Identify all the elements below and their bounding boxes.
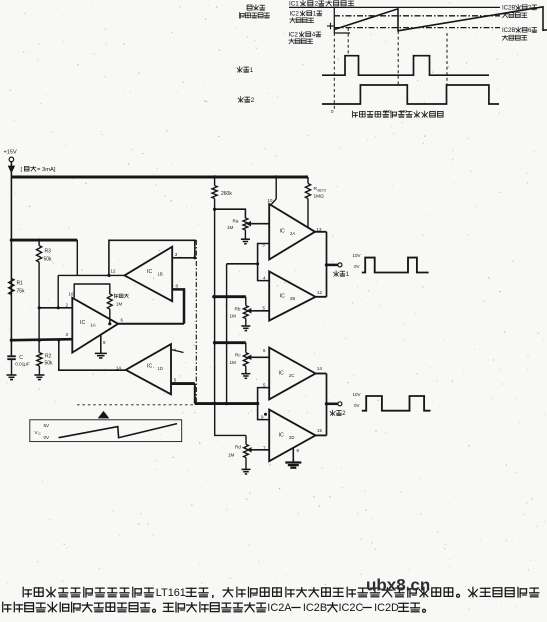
wire R2fb bottom [109, 309, 111, 324]
svg-text:2: 2 [315, 1, 319, 8]
caption typical waveforms [352, 111, 443, 117]
ground under Ra [241, 230, 250, 244]
waveform box [30, 420, 182, 442]
comparator IC2B [269, 271, 315, 320]
IC1 package outline bottom [77, 404, 194, 406]
wire IC1A output [118, 323, 184, 325]
label IC2 pin1 reference level [290, 11, 322, 23]
wire Rd feed [215, 404, 246, 445]
svg-text:2: 2 [66, 303, 69, 308]
pin 12 IC2B [317, 290, 322, 295]
junction bus-260k [213, 402, 216, 405]
svg-text:R1: R1 [17, 281, 24, 287]
terminal clock2 [338, 402, 342, 406]
svg-text:SET2: SET2 [317, 189, 326, 193]
svg-text:12: 12 [111, 269, 116, 274]
pin 15 IC2D [317, 428, 322, 433]
svg-text:Rb: Rb [235, 307, 241, 312]
svg-text:9: 9 [261, 415, 264, 420]
wire IC1B top loop [109, 240, 195, 275]
wire feedback down [57, 275, 59, 307]
dashed grid vertical 3 [397, 31, 399, 86]
comparator IC2A [269, 204, 315, 260]
pin 5 IC2C inv [263, 382, 266, 387]
terminal +15V [9, 157, 14, 166]
sawtooth chart axis [334, 7, 350, 33]
svg-text:14: 14 [317, 366, 322, 371]
terminal clock1 [338, 263, 342, 267]
op-amp IC1A [72, 298, 118, 353]
wire left vertical [10, 177, 12, 356]
svg-text:IC2C: IC2C [339, 602, 364, 614]
label 10V clock2 [353, 392, 361, 397]
dashed grid vertical 4 [446, 33, 448, 86]
svg-text:5: 5 [174, 378, 177, 383]
svg-text:C: C [19, 355, 23, 361]
wire pin16 stub [74, 284, 110, 298]
wiper Rb [248, 309, 270, 313]
label Vc [35, 430, 42, 436]
wire IC2B out [316, 296, 327, 298]
svg-text:2A: 2A [290, 231, 295, 236]
wire Rb feed [214, 297, 246, 306]
junction Rc tee [213, 341, 216, 344]
wire IC2A out [315, 231, 327, 233]
svg-text:9: 9 [103, 340, 106, 345]
junction feedback-IC1B [107, 274, 110, 277]
wire IC2C out [316, 373, 327, 375]
wire IC1D output [171, 384, 195, 404]
wire sawtooth to bracket A [227, 263, 258, 265]
sawtooth waveform [334, 7, 547, 31]
junction clock1 [325, 263, 328, 266]
wire to IC1D input [59, 340, 126, 370]
label IC2B pin6 reference level [502, 27, 537, 40]
time axis labels [331, 109, 408, 114]
wire RSET2 down [307, 199, 309, 228]
svg-text:2: 2 [342, 410, 346, 417]
wire IC1B out bottom [172, 289, 184, 323]
wire R3 bottom [38, 262, 40, 353]
label 0V clock2 [354, 403, 360, 408]
svg-text:2B: 2B [290, 296, 295, 301]
svg-text:0: 0 [331, 109, 334, 114]
svg-text:8: 8 [297, 448, 300, 453]
wire sawtooth bus [195, 402, 258, 405]
leader tick [327, 23, 334, 29]
body text line 2 [3, 602, 426, 614]
label IC2 pin4 reference level [289, 32, 321, 44]
reference line 3 [334, 27, 500, 29]
label 5V [44, 423, 51, 428]
IC1 package outline right [195, 240, 197, 405]
pin 4 IC1D [171, 348, 184, 353]
pin 16 IC1A [69, 292, 74, 297]
svg-text:5: 5 [263, 305, 266, 310]
pin 9 IC1A [103, 340, 106, 345]
svg-text:6: 6 [263, 348, 266, 353]
svg-text:IC: IC [279, 433, 284, 439]
svg-text:Rc: Rc [235, 353, 241, 358]
svg-text:3: 3 [66, 332, 69, 337]
svg-text:1D: 1D [158, 366, 163, 371]
junction clock2 [325, 402, 328, 405]
resistor R2fb threshold [107, 294, 128, 309]
pin 8 IC1B [176, 284, 179, 289]
svg-text:IC1: IC1 [289, 1, 299, 8]
svg-text:IC: IC [147, 364, 152, 370]
pin 3 IC1A [66, 332, 69, 337]
waveform clock2 [362, 396, 431, 411]
svg-text:1M: 1M [230, 360, 237, 365]
wire bracket A [258, 244, 270, 281]
wire bias spur [11, 239, 77, 242]
op-amp IC1D [126, 344, 171, 394]
svg-text:2: 2 [251, 97, 255, 104]
svg-text:1M: 1M [228, 453, 235, 458]
svg-text:IC: IC [280, 229, 285, 235]
ground under C [7, 375, 17, 380]
arrow to waveform box [99, 412, 108, 418]
label 0V box [44, 435, 51, 440]
junction bracket C pin9 [261, 413, 267, 420]
resistor R3 [37, 240, 53, 262]
svg-text:14: 14 [116, 366, 121, 371]
svg-text:4: 4 [263, 275, 266, 280]
junction R3 top [38, 239, 41, 242]
pin 7 IC2D [263, 445, 266, 450]
label supply current [21, 166, 56, 173]
node +15V label [4, 150, 17, 156]
junction left-bias [10, 238, 13, 241]
watermark ubx8.cn [366, 576, 430, 595]
svg-text:1: 1 [346, 271, 350, 278]
ground under Rb [241, 319, 250, 331]
resistor RSET2 [305, 177, 326, 200]
svg-text:260k: 260k [221, 191, 232, 197]
label clock2 waveform [238, 97, 255, 104]
wiper Ra [247, 222, 269, 226]
wire IC1A gnd stub [100, 335, 102, 354]
wire Rc feed [215, 343, 246, 353]
potentiometer Rb [230, 306, 249, 319]
wire IC1A inv input [11, 339, 72, 340]
svg-text:0V: 0V [44, 435, 51, 440]
svg-text:6: 6 [121, 318, 124, 323]
wiper Rc [248, 356, 270, 360]
svg-text:IC2B: IC2B [502, 28, 515, 34]
svg-text:IC2B: IC2B [303, 602, 327, 614]
label clock1 [334, 271, 350, 278]
junction IC1B out [193, 256, 196, 259]
ground under Rc [241, 366, 250, 378]
svg-text:Ra: Ra [233, 219, 239, 224]
label capacitor voltage [239, 5, 269, 18]
pin 10 IC2A [268, 198, 273, 203]
svg-text:8: 8 [176, 284, 179, 289]
wire feedback horizontal [58, 274, 124, 276]
junction IC1D feed [57, 338, 60, 341]
svg-text:IC2A: IC2A [267, 602, 292, 614]
label clock1 waveform [237, 67, 254, 74]
wire clock1 node [326, 232, 328, 297]
svg-text:[: [ [21, 167, 23, 173]
pin 4 IC2B [263, 275, 266, 280]
junction pin2 tee [38, 306, 41, 309]
resistor R2 [37, 353, 53, 375]
svg-text:1M: 1M [230, 314, 237, 319]
junction rail-260k [213, 175, 216, 178]
wire IC2A V+ [271, 177, 276, 204]
svg-text:50k: 50k [45, 361, 54, 367]
svg-text:1: 1 [313, 12, 317, 18]
pin 5 IC2B [263, 305, 266, 310]
body text line 1 [23, 587, 539, 599]
svg-text:1: 1 [250, 67, 254, 74]
svg-text:1A: 1A [91, 323, 96, 328]
wire IC1A noninv input [39, 307, 72, 309]
svg-text:+15V: +15V [4, 150, 17, 156]
pin 3 IC1B [175, 252, 178, 257]
svg-text:1MΩ: 1MΩ [314, 194, 325, 200]
resistor R1 [9, 240, 25, 294]
junction bus-bracket [256, 402, 259, 405]
pin 14 IC2C [317, 366, 322, 371]
junction rail-IC2A [275, 175, 278, 178]
junction bracket A [256, 262, 259, 265]
junction feedback join [57, 306, 60, 309]
wire IC2D out [316, 434, 327, 436]
IC1 package outline top [170, 239, 196, 241]
svg-text:IC2: IC2 [290, 12, 300, 18]
pin 6 IC1A [121, 318, 124, 323]
svg-text:IC: IC [80, 320, 85, 326]
svg-text:0V: 0V [354, 403, 360, 408]
svg-text:5: 5 [263, 382, 266, 387]
junction Rb tee [212, 295, 215, 298]
wiper Rd [248, 448, 269, 452]
svg-text:16: 16 [69, 292, 74, 297]
svg-text:0V: 0V [354, 264, 360, 269]
junction bus-riser [225, 402, 228, 405]
ground under IC1A [95, 353, 107, 358]
svg-text:2D: 2D [289, 435, 294, 440]
svg-text:R3: R3 [45, 249, 52, 255]
pin 2 IC1A [66, 303, 69, 308]
pin 14 IC1D [116, 366, 121, 371]
pin 13 IC2A [317, 227, 322, 232]
svg-text:IC2: IC2 [289, 33, 299, 39]
svg-text:4: 4 [312, 33, 316, 39]
svg-text:IC: IC [279, 371, 284, 377]
svg-text:75k: 75k [17, 289, 26, 295]
svg-text:IC: IC [280, 294, 285, 300]
svg-text:50k: 50k [44, 257, 53, 263]
wire clock1 out [327, 264, 338, 267]
svg-text:LT161: LT161 [156, 587, 186, 599]
svg-text:1B: 1B [158, 272, 163, 277]
ground under IC2D [285, 463, 301, 468]
svg-text:IC: IC [147, 269, 152, 275]
ground under R2 [34, 375, 44, 380]
clock2 waveform [322, 85, 499, 104]
wire IC1B out top [172, 257, 195, 259]
svg-text:IC2D: IC2D [374, 602, 399, 614]
svg-text:3: 3 [175, 252, 178, 257]
svg-text:12: 12 [317, 290, 322, 295]
comparator IC2C [269, 348, 315, 400]
sawtooth in box [59, 424, 177, 438]
svg-text:6: 6 [528, 28, 532, 34]
pin 5 IC1D [174, 378, 177, 383]
junction R2fb-output [108, 322, 111, 325]
resistor 260k [212, 177, 232, 199]
svg-text:0.01μF: 0.01μF [15, 362, 30, 367]
svg-text:10V: 10V [353, 392, 361, 397]
svg-text:15: 15 [317, 428, 322, 433]
ground under Rd [242, 458, 251, 474]
pin 6 IC2C [263, 348, 266, 353]
wire Ra feed [215, 209, 246, 218]
wire clock2 node [326, 374, 328, 436]
potentiometer Rd [228, 444, 248, 457]
svg-text:1M: 1M [227, 225, 234, 230]
svg-text:= 3mA]: = 3mA] [37, 167, 56, 173]
wire bracket C [258, 388, 270, 420]
svg-text:10V: 10V [353, 253, 361, 258]
svg-text:1M: 1M [116, 302, 122, 307]
potentiometer Rc [230, 353, 249, 367]
wire +15V rail [11, 172, 308, 177]
pin 12 IC1B [111, 269, 116, 274]
dashed grid vertical 1 [333, 33, 335, 109]
svg-text:2C: 2C [289, 373, 294, 378]
svg-text:Rd: Rd [235, 445, 241, 450]
svg-text:R2: R2 [45, 354, 52, 360]
wire sawtooth riser [226, 264, 228, 404]
clock1 waveform [322, 56, 489, 75]
svg-text:IC2B: IC2B [502, 6, 515, 12]
label 0V clock1 [354, 264, 360, 269]
wire clock2 out [327, 403, 338, 406]
svg-text:5V: 5V [44, 423, 51, 428]
label 10V clock1 [353, 253, 361, 258]
wire bias down [76, 240, 78, 275]
potentiometer Ra [227, 218, 248, 230]
junction crossing [38, 339, 41, 342]
reference line 1 [289, 6, 500, 8]
svg-text:C: C [38, 432, 41, 436]
capacitor C [7, 295, 30, 375]
current direction arrow [9, 166, 15, 172]
pin 3 IC2A inv [262, 242, 265, 247]
wire IC2D gnd stub [292, 448, 294, 462]
label clock2 [330, 410, 346, 417]
svg-text:10: 10 [268, 198, 273, 203]
reference line 2 [334, 15, 500, 17]
wire 260k down [214, 199, 216, 404]
dashed grid vertical 2 [347, 28, 349, 56]
junction left-input [10, 339, 13, 342]
junction Ra tee [213, 208, 216, 211]
op-amp IC1B [125, 247, 173, 302]
label IC2B pin3 reference level [502, 5, 537, 18]
comparator IC2D [269, 410, 315, 462]
waveform clock1 [362, 258, 429, 273]
label IC1 pin2 reference level [289, 1, 354, 8]
svg-text:ubx8.cn: ubx8.cn [366, 576, 430, 595]
pin 8 IC2D [297, 448, 300, 453]
